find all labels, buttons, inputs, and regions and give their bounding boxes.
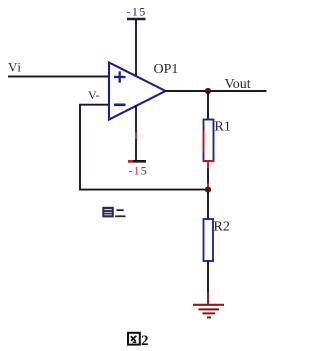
wire R1 to feedback node (red pin stub) <box>207 161 209 169</box>
resistor R2 <box>204 219 214 261</box>
wire V- to - pin <box>80 104 110 106</box>
wire V- supply from op-amp <box>135 105 137 161</box>
wire R1 to feedback node <box>207 169 209 184</box>
power rail +15 bar (top) <box>127 18 146 21</box>
wire V+ supply to op-amp <box>135 19 137 77</box>
svg-text:R2: R2 <box>214 220 230 235</box>
svg-text:R1: R1 <box>215 120 231 135</box>
wire node to R2 <box>207 192 209 219</box>
svg-text:2: 2 <box>141 333 149 349</box>
svg-text:OP1: OP1 <box>154 62 179 77</box>
wire Vi input to + pin <box>8 76 110 78</box>
resistor R1 <box>203 120 215 162</box>
ground <box>193 305 224 318</box>
op-amp OP1 <box>109 63 166 120</box>
svg-text:Vout: Vout <box>225 77 251 92</box>
svg-text:Vi: Vi <box>8 60 22 75</box>
wire Vout node to R1 <box>207 91 209 120</box>
wire red stub above node <box>207 183 209 188</box>
wire R2 to ground (red lower part) <box>207 292 209 305</box>
junction Vout node <box>205 88 211 94</box>
caption 图2 (figure 2, drawn strokes) <box>128 333 140 345</box>
pin tick (red) on V- supply wire <box>135 133 137 140</box>
wire feedback vertical <box>79 104 81 191</box>
power rail -15 bar (bottom) <box>128 160 146 163</box>
power rail -15 bar red tip <box>128 160 133 163</box>
wire output <box>165 90 267 92</box>
wire R2 to ground <box>207 261 209 292</box>
svg-text:V-: V- <box>88 88 100 102</box>
wire feedback horizontal <box>80 189 208 191</box>
junction feedback node <box>205 187 211 193</box>
caption 圖二 (figure two, drawn strokes) <box>102 207 125 218</box>
svg-text:-15: -15 <box>129 164 148 178</box>
svg-text:-15: -15 <box>127 5 147 19</box>
